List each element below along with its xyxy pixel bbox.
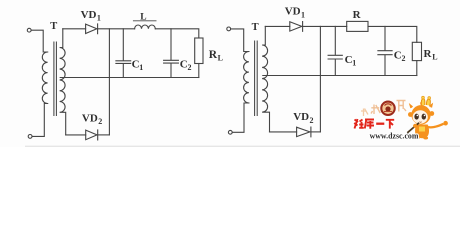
svg-text:1: 1 <box>301 10 305 19</box>
wire VD2 riser (right circuit) <box>319 26 321 131</box>
watermark red text 库 <box>365 120 374 129</box>
watermark mascot eyes <box>414 114 418 120</box>
input terminal bottom-right circuit <box>228 130 232 134</box>
wire top rail left <box>63 28 86 30</box>
resistor RL <box>195 38 203 64</box>
watermark mascot body <box>415 125 429 139</box>
input terminal bottom-left <box>28 135 32 139</box>
watermark faint character 1 <box>371 105 380 115</box>
svg-text:L: L <box>140 12 146 22</box>
diode VD2 (right circuit) <box>297 127 311 137</box>
transformer T2 primary winding <box>244 52 249 104</box>
wire <box>66 134 86 136</box>
wire <box>311 131 321 133</box>
wire top rail right <box>368 26 417 42</box>
watermark red text 维 (white casing) <box>354 119 394 129</box>
resistor RL (right circuit) <box>412 42 421 60</box>
watermark mascot crown <box>421 99 430 106</box>
svg-text:L: L <box>432 53 437 62</box>
svg-text:R: R <box>424 48 433 60</box>
svg-text:T: T <box>252 22 259 33</box>
wire <box>31 30 47 52</box>
svg-text:2: 2 <box>98 117 102 126</box>
svg-text:VD: VD <box>81 9 97 21</box>
watermark faint character 0 <box>361 109 368 117</box>
watermark red text 一 <box>376 123 384 125</box>
transformer T2 core <box>255 41 258 116</box>
wire top rail right <box>155 29 199 38</box>
diode VD1 (right circuit) <box>290 22 303 32</box>
wire center-tap rail <box>60 77 199 79</box>
watermark badge seal <box>381 102 394 115</box>
watermark mascot face <box>413 110 428 124</box>
diode VD2 <box>86 130 98 140</box>
svg-text:VD: VD <box>285 6 301 18</box>
transformer T primary winding <box>42 52 47 104</box>
watermark faint character 2 <box>397 101 407 112</box>
wire VD2 riser <box>108 29 110 135</box>
transformer T2 secondary winding <box>262 26 269 131</box>
wire <box>232 103 249 132</box>
watermark mascot mane <box>411 105 430 124</box>
wire top rail left <box>265 25 290 27</box>
svg-text:www.dzsc.com: www.dzsc.com <box>370 130 419 140</box>
svg-text:2: 2 <box>402 54 406 63</box>
watermark mascot left hand <box>413 124 417 128</box>
transformer T core <box>54 42 57 116</box>
watermark red text 维 <box>354 119 364 129</box>
capacitor C1 <box>116 29 131 78</box>
watermark mascot feet <box>415 136 420 139</box>
wire <box>32 104 48 137</box>
wire <box>198 64 200 78</box>
input terminal top-right circuit <box>227 27 231 31</box>
wire <box>231 29 249 52</box>
wire <box>98 134 110 136</box>
watermark mascot brush <box>407 123 419 133</box>
transformer T secondary winding <box>60 29 66 135</box>
wire top rail middle <box>98 28 135 30</box>
svg-text:T: T <box>50 21 57 32</box>
svg-text:VD: VD <box>293 111 309 123</box>
svg-text:2: 2 <box>188 63 192 72</box>
svg-text:1: 1 <box>139 63 143 72</box>
svg-text:1: 1 <box>97 14 101 23</box>
capacitor C2 <box>164 29 179 78</box>
inductor L core bar <box>133 20 156 22</box>
svg-text:1: 1 <box>352 59 356 68</box>
scan artifact bottom edge <box>25 145 460 147</box>
wire <box>270 131 297 133</box>
capacitor C1 (right circuit) <box>328 26 342 75</box>
capacitor C2 (right circuit) <box>378 26 392 75</box>
svg-text:R: R <box>209 49 218 61</box>
diode VD1 <box>86 24 98 34</box>
svg-text:2: 2 <box>310 116 314 125</box>
watermark mascot ears <box>408 112 413 117</box>
watermark red text 下 <box>386 120 394 129</box>
input terminal top-left <box>27 28 31 32</box>
svg-text:L: L <box>218 54 223 63</box>
wire top rail middle <box>303 25 347 27</box>
wire center-tap rail (right circuit) <box>263 75 417 77</box>
inductor L <box>135 25 156 29</box>
svg-text:VD: VD <box>82 112 98 124</box>
wire <box>416 61 418 76</box>
resistor R <box>347 21 368 31</box>
svg-text:R: R <box>353 9 362 21</box>
watermark mascot right arm <box>428 124 444 128</box>
